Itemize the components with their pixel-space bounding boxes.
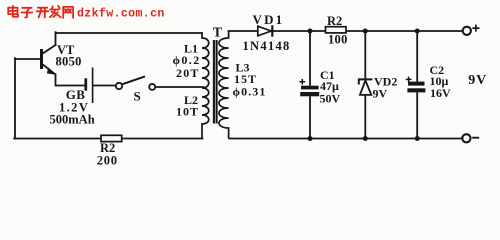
svg-text:R2: R2 (327, 14, 342, 28)
resistor R2 (100) (326, 27, 347, 33)
svg-text:ϕ0.2: ϕ0.2 (173, 53, 201, 67)
output terminal negative (462, 134, 470, 142)
watermark hanzi 网 (63, 7, 73, 18)
svg-text:500mAh: 500mAh (50, 113, 95, 127)
resistor R2 (200) (101, 135, 122, 141)
watermark hanzi 子 (22, 8, 33, 18)
output terminal positive (463, 27, 471, 35)
wire VD1 cathode to R2 (273, 30, 325, 32)
diode VD1 1N4148 (258, 25, 273, 36)
watermark hanzi 开 (37, 8, 49, 18)
junction C2 bottom (415, 136, 420, 141)
wire top-left (collector to L1 top) (56, 32, 203, 34)
transformer secondary winding L3 (219, 31, 229, 139)
svg-text:1N4148: 1N4148 (243, 39, 291, 53)
svg-text:9V: 9V (373, 87, 388, 101)
svg-text:S: S (134, 89, 141, 104)
wire bottom-left to R2 (14, 138, 101, 140)
watermark hanzi 发 (50, 6, 61, 17)
junction VD2 bottom (363, 136, 368, 141)
wire collector vertical (55, 32, 57, 45)
svg-text:16V: 16V (430, 86, 451, 100)
capacitor C2 polarity + (406, 77, 412, 83)
label minus sign (472, 137, 479, 139)
switch S (116, 76, 155, 90)
junction C1 bottom (308, 136, 313, 141)
svg-text:dzkfw.com.cn: dzkfw.com.cn (77, 7, 165, 20)
junction VD2 top (363, 29, 368, 34)
capacitor C2 plates (408, 82, 425, 86)
wire left vertical return (14, 58, 16, 138)
svg-text:50V: 50V (320, 91, 341, 105)
battery GB (86, 68, 93, 104)
svg-text:8050: 8050 (56, 55, 82, 69)
junction C2 top (415, 29, 420, 34)
capacitor C1 plates (301, 86, 319, 90)
svg-text:VD1: VD1 (253, 12, 285, 27)
svg-text:20T: 20T (176, 66, 200, 80)
svg-text:10T: 10T (176, 104, 199, 118)
label plus sign (472, 25, 479, 32)
svg-text:ϕ0.31: ϕ0.31 (233, 85, 267, 99)
wire R2 to L2 bottom (122, 138, 203, 140)
transistor VT 8050 (42, 45, 57, 75)
junction C1 top (308, 29, 313, 34)
wire battery to switch (93, 85, 116, 87)
capacitor C2 branch wires (416, 31, 418, 139)
transformer core (214, 40, 217, 124)
wire base lead (15, 58, 41, 60)
wire switch to winding tap (155, 86, 203, 88)
watermark hanzi 电 (8, 6, 18, 17)
capacitor C1 polarity + (299, 79, 305, 85)
svg-text:100: 100 (328, 32, 348, 46)
wire L3 top to VD1 anode (229, 30, 258, 32)
svg-text:200: 200 (97, 153, 118, 167)
svg-text:T: T (213, 25, 223, 40)
zener diode VD2 (359, 31, 373, 139)
wire emitter to battery (56, 75, 86, 86)
transistor VT emitter arrow (47, 67, 56, 75)
transformer T primary windings L1 L2 (202, 32, 209, 138)
wire bottom-right rail (229, 138, 462, 140)
svg-text:9V: 9V (468, 73, 487, 88)
wire R2 to + terminal (346, 30, 463, 32)
capacitor C1 branch wires (309, 31, 311, 139)
